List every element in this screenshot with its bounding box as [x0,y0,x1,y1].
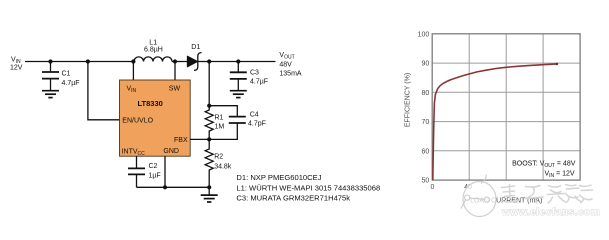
svg-text:48V: 48V [279,62,292,69]
svg-text:C3: MURATA GRM32ER71H475k: C3: MURATA GRM32ER71H475k [236,193,350,202]
svg-text:12V: 12V [10,64,23,71]
curve end marker [556,63,559,66]
node junction GND rail [163,185,167,189]
ground (C1) [42,91,59,98]
svg-text:GND: GND [163,148,179,155]
svg-text:SW: SW [169,86,181,93]
chart gridlines [432,34,580,180]
wire: GND pin stub [164,156,166,187]
svg-text:1M: 1M [215,124,225,131]
wire: vertical from D1 output down to R1 [208,62,210,106]
svg-text:LT8330: LT8330 [138,99,163,108]
svg-text:C1: C1 [62,71,71,78]
resistor R1 [205,106,224,140]
svg-text:EFFICIENCY (%): EFFICIENCY (%) [405,73,412,127]
op IC U1 LT8330 [120,80,191,157]
svg-text:70: 70 [422,119,430,126]
svg-text:80: 80 [422,90,430,97]
node junction R1/C4 top [207,104,211,108]
svg-text:34.8k: 34.8k [214,163,232,170]
svg-text:C3: C3 [250,70,259,77]
node junction C1 tap [48,59,52,63]
wire: bottom ground rail [137,186,210,188]
node junction EN tap [86,59,90,63]
inductor L1 [134,39,172,61]
svg-text:60: 60 [422,148,430,155]
svg-text:90: 90 [422,61,430,68]
svg-text:100: 100 [418,31,430,38]
wire: VIN pin stub [132,62,134,81]
node VIN input label [10,57,23,72]
svg-text:4.7pF: 4.7pF [248,120,266,127]
svg-text:D1: NXP PMEG6010CEJ: D1: NXP PMEG6010CEJ [236,173,321,182]
wire: SW pin stub [174,62,176,81]
svg-text:VIN = 12V: VIN = 12V [544,171,574,180]
node junction D1 output [207,59,211,63]
note: component values [236,173,380,202]
node VOUT output label [279,52,302,77]
note: chart conditions annotation [512,160,576,179]
wire: FBX pin to divider [190,138,209,140]
svg-text:1µF: 1µF [149,173,161,180]
svg-text:L1: L1 [149,39,157,46]
svg-text:FBX: FBX [174,137,188,144]
svg-text:135mA: 135mA [279,70,302,77]
ground (C3) [230,91,247,98]
watermark logo circle [461,175,496,217]
svg-text:EN/UVLO: EN/UVLO [122,118,153,125]
resistor R2 [205,139,232,187]
node junction C3 tap [236,59,240,63]
node junction VIN pin tap [131,59,135,63]
ground (bottom) [201,187,218,202]
capacitor C3 [230,62,268,91]
svg-text:D1: D1 [191,44,200,51]
svg-text:www.elecfans.com: www.elecfans.com [501,207,600,218]
svg-text:0: 0 [430,184,434,191]
curve: efficiency vs load current [433,64,557,180]
chart x-axis labels [430,184,472,191]
chart frame [432,34,580,180]
capacitor C2 [128,156,161,187]
node junction R2 bottom [207,185,211,189]
node junction SW / L1 / D1 tap [173,59,177,63]
svg-text:50: 50 [422,178,430,185]
diode D1 (Schottky) [187,44,209,70]
chart y-axis labels [418,31,430,184]
svg-text:4.7µF: 4.7µF [62,80,80,87]
watermark chinese glyph strokes [502,185,593,204]
wire: output rail to VOUT [209,61,275,63]
capacitor C4 [209,106,266,140]
svg-text:4.7µF: 4.7µF [250,78,268,85]
svg-text:C2: C2 [149,163,158,170]
svg-text:C4: C4 [250,111,259,118]
wire: VIN rail from input to L1 [25,61,134,63]
wire: EN/UVLO branch [88,62,120,120]
capacitor C1 [42,62,80,91]
svg-text:R1: R1 [215,115,224,122]
svg-text:BOOST: VOUT = 48V: BOOST: VOUT = 48V [512,160,576,169]
svg-text:6.8µH: 6.8µH [144,47,163,54]
wire: L1 to D1 [172,61,188,63]
node junction FBX [207,137,211,141]
svg-text:VOUT: VOUT [279,52,294,61]
svg-text:L1: WÜRTH WE-MAPI 3015 7443833: L1: WÜRTH WE-MAPI 3015 74438335068 [236,183,380,192]
svg-text:R2: R2 [214,153,223,160]
